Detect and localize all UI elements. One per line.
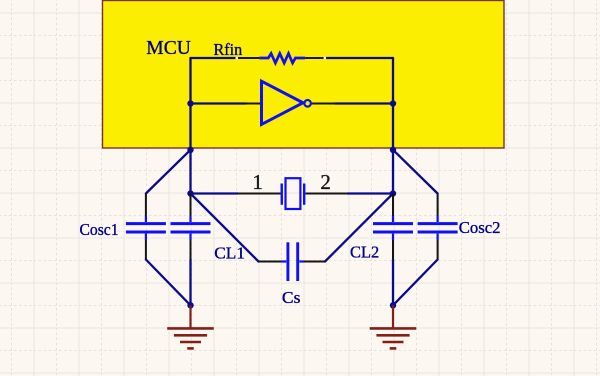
svg-text:CL1: CL1 <box>214 244 245 263</box>
svg-text:Cosc1: Cosc1 <box>80 220 119 239</box>
svg-text:Cosc2: Cosc2 <box>459 218 501 237</box>
svg-text:MCU: MCU <box>146 37 191 59</box>
svg-text:Rfin: Rfin <box>214 40 243 59</box>
svg-text:1: 1 <box>252 170 263 194</box>
svg-text:2: 2 <box>320 170 331 194</box>
svg-text:CL2: CL2 <box>350 243 379 262</box>
svg-text:Cs: Cs <box>282 288 301 307</box>
